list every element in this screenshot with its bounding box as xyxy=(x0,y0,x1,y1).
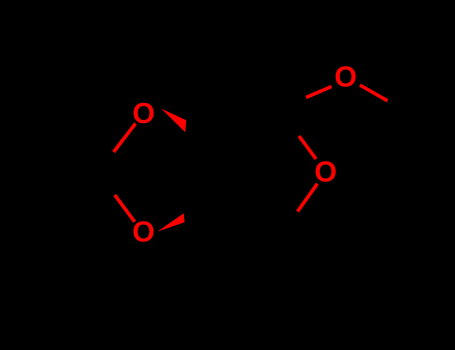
wire: ring O to C1, carbon half xyxy=(279,109,299,136)
wire: O-top to acetal carbon, carbon half xyxy=(93,152,114,176)
wire: ring O to C4, carbon half xyxy=(279,212,298,238)
wire: ring O to C4 red bond xyxy=(298,184,318,212)
wire: ring O to C1 red bond xyxy=(299,136,316,159)
wire: O-bottom to acetal carbon, carbon half xyxy=(93,176,115,195)
svg-text:O: O xyxy=(132,98,155,130)
wire: acetal carbon to upper methyl xyxy=(35,139,93,176)
wire: O-methoxy methyl red bond xyxy=(360,85,388,101)
wire: O-methoxy to C1 red bond xyxy=(306,87,332,98)
svg-text:O: O xyxy=(314,157,337,189)
wire: C2-C3 ring bond xyxy=(217,137,218,206)
wire: O-bottom to acetal carbon red bond xyxy=(115,195,135,222)
svg-text:O: O xyxy=(132,217,155,249)
wedge bond O-top to C2 xyxy=(161,109,186,133)
wire: carbon-carbon bonds drawn black-on-black (invisible in source) xyxy=(35,98,411,238)
wire: acetal carbon to lower methyl xyxy=(35,176,93,212)
wire: C2-C1 ring bond xyxy=(218,109,279,137)
svg-text:O: O xyxy=(334,61,357,93)
wedge bond O-bottom to C3 xyxy=(157,213,184,231)
wire: O-top to acetal carbon red bond xyxy=(114,124,136,153)
wire: C3-C4 ring bond xyxy=(217,206,279,237)
wire: methoxy methyl tail, carbon half xyxy=(388,101,412,114)
wire: O-methoxy to C1, carbon half xyxy=(279,98,306,110)
